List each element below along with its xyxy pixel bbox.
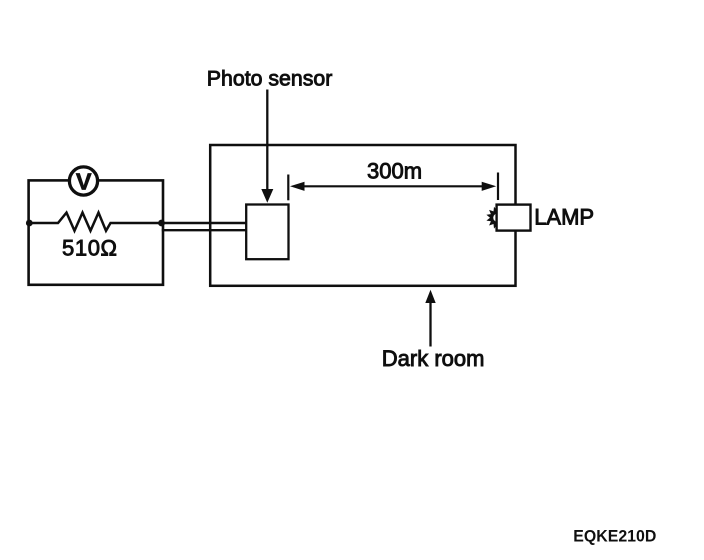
svg-text:V: V	[76, 169, 92, 195]
svg-text:EQKE210D: EQKE210D	[573, 526, 656, 545]
svg-text:Photo sensor: Photo sensor	[207, 66, 332, 90]
svg-text:510Ω: 510Ω	[62, 235, 117, 260]
svg-text:300m: 300m	[367, 158, 422, 183]
svg-text:Dark room: Dark room	[382, 346, 485, 371]
svg-text:LAMP: LAMP	[534, 204, 594, 229]
